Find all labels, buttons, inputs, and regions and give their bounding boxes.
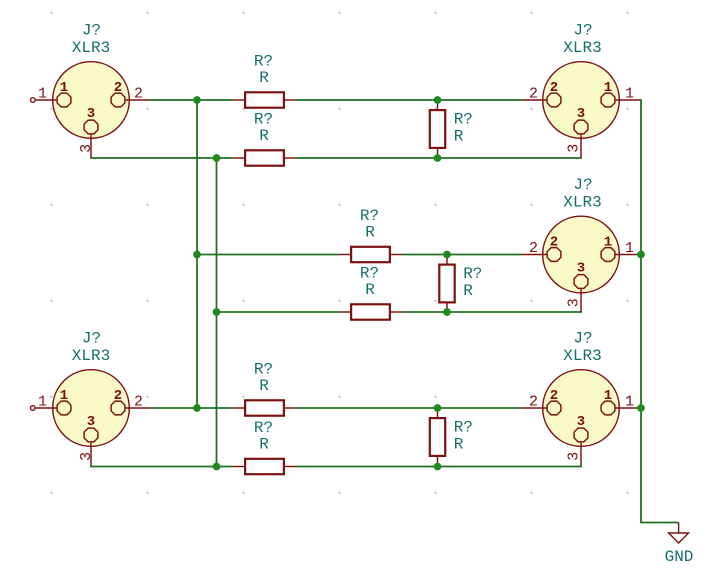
J2 pin 1 pad [601,93,615,107]
svg-text:1: 1 [38,86,47,103]
wire row2 top right segment [402,254,522,256]
J3 body circle [543,216,620,293]
svg-text:J?: J? [573,176,592,194]
svg-text:2: 2 [529,394,538,411]
svg-text:XLR3: XLR3 [563,347,601,365]
R2 right pin stub [285,157,296,159]
svg-text:R: R [365,281,375,299]
J1 pin 1 stub wire [35,99,57,101]
svg-text:2: 2 [529,86,538,103]
svg-text:2: 2 [550,80,558,96]
junction node N11 (437.5,408) [434,404,442,412]
J3 pin 2 stub wire [522,254,547,256]
J5 pin 1 pad [601,401,615,415]
J5 pin 2 pad [547,401,561,415]
connector J3 (XLR3) [522,176,640,311]
connector J4 (XLR3) [31,330,151,465]
svg-text:R?: R? [454,419,473,437]
wire row3 top left segment [150,407,233,409]
R7 body [430,110,445,148]
junction node N8 (216.5,312) [213,308,221,316]
svg-text:R: R [454,128,464,146]
R9 top pin stub [437,408,439,417]
J1 body circle [53,62,130,139]
J4 pin 1 stub wire [35,407,57,409]
svg-text:R: R [259,435,269,453]
svg-text:1: 1 [625,240,634,257]
wire row1 top left segment [150,99,233,101]
resistor R7 (vertical) [430,100,473,158]
svg-text:J?: J? [573,330,592,348]
J1 pin 2 pad [111,93,125,107]
R6 left pin stub [233,466,244,468]
svg-text:J?: J? [573,22,592,40]
junction node N13 (216.5,466.5) [213,463,221,471]
junction node N3 (216.5,158) [213,154,221,162]
svg-text:R: R [259,377,269,395]
junction node N14 (437.5,466.5) [434,463,442,471]
J2 pin 3 stub wire [580,135,582,157]
R5 left pin stub [233,407,244,409]
svg-text:1: 1 [604,80,612,96]
svg-text:3: 3 [565,452,582,461]
R4 body [351,304,390,319]
R8 body [439,265,454,303]
R3 left pin stub [339,254,350,256]
junction node N2 (437.5,100) [434,96,442,104]
J2 pin 1 stub wire [615,99,640,101]
wire row1 top right segment [296,99,522,101]
svg-text:R?: R? [454,111,473,129]
R9 bottom pin stub [437,457,439,467]
junction node N7 (641,254.5) [637,251,645,259]
wire row3 top right segment [296,407,522,409]
junction node N9 (447,312) [443,308,451,316]
J4 body circle [53,370,130,447]
svg-text:XLR3: XLR3 [72,347,110,365]
ground GND symbol [669,523,689,544]
J1 pin 2 stub wire [125,99,150,101]
resistor R5 (horizontal) [233,361,296,416]
resistor R4 (horizontal) [339,265,402,320]
J5 pin 2 stub wire [522,407,547,409]
svg-text:3: 3 [565,298,582,307]
J1 pin 3 pad [84,120,98,134]
svg-text:R: R [259,69,269,87]
svg-text:J?: J? [82,330,101,348]
junction node N12 (641,408) [637,404,645,412]
R4 left pin stub [339,311,350,313]
svg-text:1: 1 [60,80,68,96]
wire row2 top left segment [197,254,339,256]
svg-text:XLR3: XLR3 [72,39,110,57]
wire row1 bottom left segment [91,157,233,159]
R2 left pin stub [233,157,244,159]
J4 pin 1 pad [57,401,71,415]
svg-text:GND: GND [665,548,694,566]
connector J2 (XLR3) [522,22,640,157]
svg-text:3: 3 [565,144,582,153]
resistor R2 (horizontal) [233,111,296,166]
J2 body circle [543,62,620,139]
J3 pin 3 pad [574,275,588,289]
connector J5 (XLR3) [522,330,640,465]
svg-text:2: 2 [550,388,558,404]
R8 bottom pin stub [446,304,448,313]
resistor R6 (horizontal) [233,419,296,474]
R1 right pin stub [285,99,296,101]
resistor R8 (vertical) [439,255,482,313]
J1 pin 1 pad [57,93,71,107]
svg-text:3: 3 [87,106,95,122]
junction node N10 (197,408) [193,404,201,412]
resistor R9 (vertical) [430,408,473,467]
svg-text:XLR3: XLR3 [563,39,601,57]
wire row1 bottom right segment [296,157,581,159]
R1 body [245,92,284,107]
J1 pin 3 stub wire [90,135,92,157]
J2 pin 2 pad [547,93,561,107]
junction node N1 (197,100) [193,96,201,104]
R6 right pin stub [285,466,296,468]
R4 right pin stub [391,311,402,313]
svg-text:J?: J? [82,22,101,40]
svg-text:3: 3 [577,106,585,122]
R8 top pin stub [446,255,448,264]
wire row3 bottom right segment [296,465,581,467]
junction node N6 (447,254.5) [443,251,451,259]
J4 pin 3 pad [84,428,98,442]
resistor R3 (horizontal) [339,207,402,262]
svg-text:3: 3 [78,144,95,153]
wire row2 bottom right segment [402,311,581,313]
svg-text:2: 2 [134,394,143,411]
svg-text:1: 1 [625,86,634,103]
R5 right pin stub [285,407,296,409]
wire GND net right vertical [640,100,679,523]
J3 pin 1 stub wire [615,254,640,256]
svg-text:2: 2 [114,388,122,404]
svg-text:R: R [463,282,473,300]
wire J3 pin1 to GND bus [640,254,641,256]
svg-text:2: 2 [529,240,538,257]
wire row3 bottom left segment [91,465,233,467]
connector J1 (XLR3) [31,22,151,157]
J1 pin 1 unconnected endpoint circle [31,98,36,103]
svg-text:1: 1 [625,394,634,411]
J5 body circle [543,370,620,447]
R5 body [245,400,284,415]
R3 body [351,247,390,262]
J4 pin 1 unconnected endpoint circle [31,406,36,411]
junction node N5 (197,254.5) [193,251,201,259]
J4 pin 3 stub wire [90,443,92,465]
J4 pin 2 pad [111,401,125,415]
svg-text:3: 3 [577,414,585,430]
resistor R1 (horizontal) [233,53,296,108]
wire vertical bus 2 (x=216.5) [216,158,218,467]
J2 pin 3 pad [574,120,588,134]
svg-text:R: R [365,223,375,241]
svg-text:2: 2 [134,86,143,103]
junction node N4 (437.5,158) [434,154,442,162]
J5 pin 3 pad [574,428,588,442]
R7 bottom pin stub [437,149,439,158]
R6 body [245,459,284,474]
svg-text:1: 1 [60,388,68,404]
R9 body [430,418,445,456]
svg-text:R: R [259,127,269,145]
R3 right pin stub [391,254,402,256]
svg-text:R?: R? [463,265,482,283]
svg-text:XLR3: XLR3 [563,194,601,212]
svg-text:3: 3 [78,452,95,461]
wire row2 bottom left segment [217,311,340,313]
svg-text:2: 2 [550,235,558,251]
R7 top pin stub [437,100,439,109]
R1 left pin stub [233,99,244,101]
svg-text:3: 3 [87,414,95,430]
wire J5 pin1 to GND bus [640,407,641,409]
J3 pin 2 pad [547,248,561,262]
svg-text:2: 2 [114,80,122,96]
J4 pin 2 stub wire [125,407,150,409]
J5 pin 1 stub wire [615,407,640,409]
svg-text:1: 1 [38,394,47,411]
J5 pin 3 stub wire [580,443,582,465]
svg-text:R: R [454,436,464,454]
R2 body [245,150,284,165]
J3 pin 1 pad [601,248,615,262]
J2 pin 2 stub wire [522,99,547,101]
svg-text:1: 1 [604,388,612,404]
svg-text:1: 1 [604,235,612,251]
svg-text:3: 3 [577,261,585,277]
J3 pin 3 stub wire [580,289,582,311]
wire vertical bus 1 (x=197) [196,100,198,408]
